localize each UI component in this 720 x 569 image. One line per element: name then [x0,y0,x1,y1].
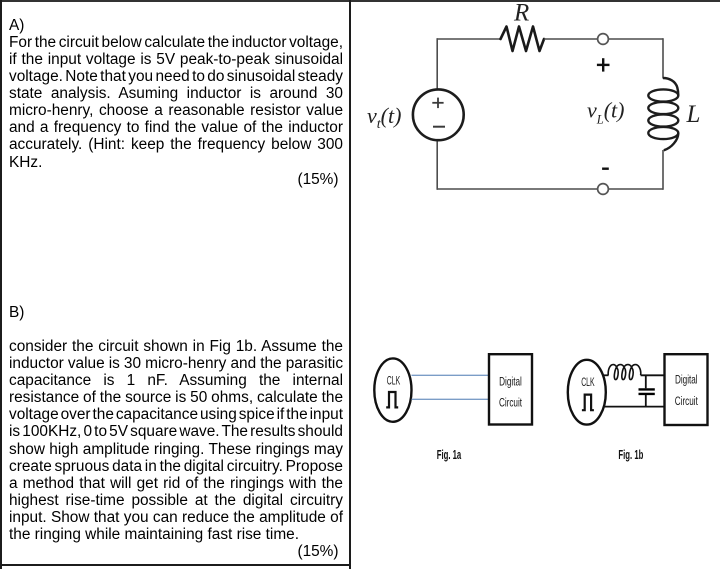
capacitor stem lower (Fig 1b) [645,395,647,407]
svg-text:Fig. 1b: Fig. 1b [618,449,643,462]
plus label at top node [597,58,610,71]
wire: left vertical upper [436,38,438,89]
minus sign inside source [433,126,445,128]
svg-text:Circuit: Circuit [675,396,698,409]
clock source CLK ellipse (Fig 1b) [568,360,606,425]
Digital Circuit text (Fig 1a) [499,376,522,410]
svg-text:vL(t): vL(t) [587,98,624,127]
svg-text:CLK: CLK [387,375,401,388]
wire: right vertical lower [662,150,664,190]
svg-text:Digital: Digital [499,376,522,389]
digital circuit block (Fig 1a) [489,354,532,424]
svg-text:R: R [513,0,529,27]
wire from coil to digital circuit (Fig 1b) [641,374,666,376]
svg-text:Circuit: Circuit [499,397,522,410]
CLK label (Fig 1b) [581,376,595,389]
wire upper (Fig 1a, blue) [412,374,490,376]
wire: left vertical lower [436,141,438,190]
digital circuit block (Fig 1b) [665,354,708,425]
wire: right vertical upper [662,38,664,78]
node terminal bottom (open circle) [598,184,609,195]
svg-text:L: L [686,101,701,128]
problem B text [9,304,343,560]
clock source CLK ellipse (Fig 1a) [374,358,411,421]
Fig. 1a caption [437,449,462,462]
voltage source circle [413,89,464,140]
wire lower (Fig 1a, blue) [412,398,490,400]
svg-text:vt(t): vt(t) [367,103,401,132]
inductor L (coil) [648,78,678,150]
svg-text:CLK: CLK [581,376,595,389]
wire bottom (Fig 1b) [604,406,666,408]
table borders (decorative) [0,0,720,2]
label R [513,0,529,27]
capacitor stem upper (Fig 1b) [645,375,647,388]
Fig. 1b caption [618,449,643,462]
wire: top left segment source to resistor [437,38,501,40]
inductor coil (Fig 1b) [608,365,641,380]
capacitor plates (Fig 1b) [639,389,655,394]
CLK label (Fig 1a) [387,375,401,388]
minus label at bottom node [602,167,609,169]
Digital Circuit text (Fig 1b) [675,374,698,408]
label L [686,101,701,128]
svg-text:Digital: Digital [675,374,698,387]
label v_L(t) [587,98,624,127]
resistor R (zigzag) [501,27,545,52]
label v_t(t) [367,103,401,132]
problem A text [9,17,343,188]
node terminal top (open circle) [598,34,609,45]
wire from CLK to coil (Fig 1b) [603,374,609,376]
wire: bottom [437,188,663,190]
svg-text:Fig. 1a: Fig. 1a [437,449,462,462]
pulse symbol (Fig 1b) [582,395,594,411]
wire: resistor to right top corner [544,38,663,40]
pulse symbol (Fig 1a) [386,392,398,407]
plus sign inside source [432,98,443,109]
